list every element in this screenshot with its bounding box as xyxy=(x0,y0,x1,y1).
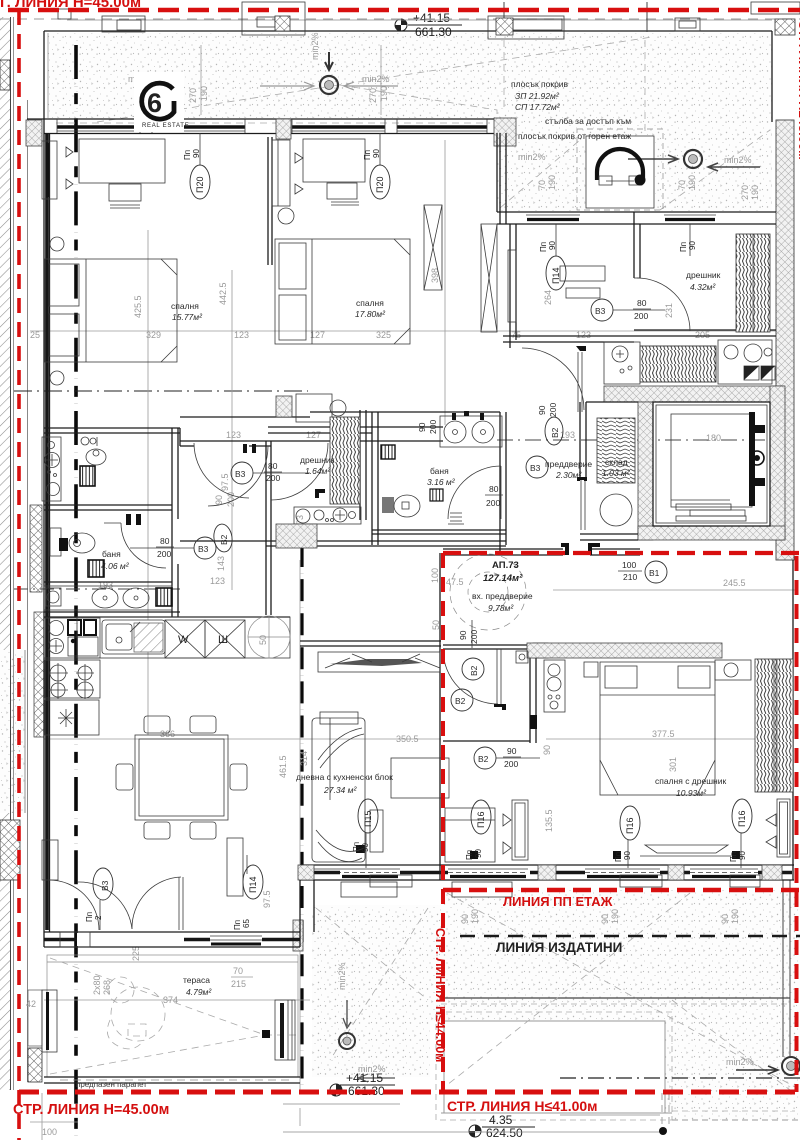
svg-text:СТР. ЛИНИЯ Н≤45.00м: СТР. ЛИНИЯ Н≤45.00м xyxy=(796,20,800,160)
bedroom2 desk xyxy=(303,139,365,182)
B3 circle bath door xyxy=(194,537,216,559)
bath vanity wall xyxy=(44,581,172,583)
arrow far right xyxy=(708,163,760,171)
elevator shaft bottom band xyxy=(638,526,785,540)
crosshatch pier bath level xyxy=(30,505,42,592)
entry wall under red line xyxy=(443,548,563,550)
bottom mid-left roof stipple xyxy=(312,905,444,1077)
svg-text:10.93м²: 10.93м² xyxy=(676,788,707,798)
svg-text:Пп: Пп xyxy=(729,852,738,862)
slope diagonals bottom right xyxy=(447,893,795,1087)
upper-right room shelves xyxy=(560,266,605,281)
svg-text:СТР. ЛИНИЯ Н≤41.00м: СТР. ЛИНИЯ Н≤41.00м xyxy=(447,1098,598,1114)
black node Pp90 xyxy=(356,845,365,853)
bath2 vanity xyxy=(440,416,502,447)
bath1 mid wall xyxy=(44,504,172,506)
bath2 door arc xyxy=(448,466,501,519)
terrace slope dashes xyxy=(50,958,298,1074)
svg-text:2.30м²: 2.30м² xyxy=(555,470,582,480)
dreshnik 4.32 wardrobe xyxy=(736,234,770,332)
svg-text:80: 80 xyxy=(637,298,647,308)
window tag P20 right xyxy=(370,165,390,199)
svg-text:ЛИНИЯ ИЗДАТИНИ: ЛИНИЯ ИЗДАТИНИ xyxy=(496,940,622,955)
top right corner box xyxy=(751,2,800,14)
svg-text:97.5: 97.5 xyxy=(220,473,230,491)
apt2 wall x530 xyxy=(529,645,531,743)
svg-text:преддверие: преддверие xyxy=(545,459,592,469)
kitchen sink unit xyxy=(102,620,165,654)
washer W xyxy=(165,620,205,658)
level symbol top xyxy=(395,19,407,31)
wall between bedrooms x268 xyxy=(267,137,269,265)
svg-text:min2%: min2% xyxy=(310,32,320,60)
svg-text:100: 100 xyxy=(430,568,440,583)
svg-text:+41.15: +41.15 xyxy=(413,11,450,25)
svg-text:90: 90 xyxy=(458,630,468,640)
svg-text:200: 200 xyxy=(634,311,648,321)
bath1 divider xyxy=(96,437,98,446)
radiator column right bedroom3 xyxy=(777,799,790,857)
left wall lower fixtures xyxy=(42,840,58,880)
svg-text:27.34 м²: 27.34 м² xyxy=(323,785,357,795)
drain bottom right xyxy=(782,1057,800,1075)
corridor small door arc x268 xyxy=(208,446,268,506)
chair left xyxy=(116,764,133,790)
right outer wall lower xyxy=(792,560,794,880)
bedroom1 bottom wall xyxy=(44,427,180,429)
svg-text:200: 200 xyxy=(486,498,500,508)
roof right edge xyxy=(771,31,773,122)
svg-text:190: 190 xyxy=(547,175,557,190)
svg-text:190: 190 xyxy=(687,175,697,190)
svg-text:АП.73: АП.73 xyxy=(492,560,519,571)
bath2 walls xyxy=(371,412,373,545)
dreshnik bottom wall xyxy=(634,329,776,331)
svg-text:2x80: 2x80 xyxy=(92,975,102,995)
svg-text:Пп: Пп xyxy=(465,850,474,860)
svg-text:В2: В2 xyxy=(478,754,489,764)
svg-text:80: 80 xyxy=(160,536,170,546)
svg-text:min2%: min2% xyxy=(726,1057,754,1067)
svg-text:50: 50 xyxy=(258,635,268,645)
svg-text:270: 270 xyxy=(368,88,378,103)
bedroom2 right wall x500 xyxy=(499,133,501,224)
svg-text:П16: П16 xyxy=(625,818,635,834)
svg-text:предпазен парапет: предпазен парапет xyxy=(76,1080,147,1089)
svg-text:42: 42 xyxy=(26,999,36,1009)
svg-text:склад: склад xyxy=(605,457,628,467)
svg-text:123: 123 xyxy=(210,576,225,586)
svg-text:100: 100 xyxy=(42,1127,57,1137)
logo G6 xyxy=(134,72,189,132)
svg-text:3.16 м²: 3.16 м² xyxy=(427,477,456,487)
svg-text:65: 65 xyxy=(242,919,251,928)
terrace door opening xyxy=(77,933,184,946)
svg-text:Пп: Пп xyxy=(614,852,623,862)
B3 circle corridor top xyxy=(231,462,253,484)
lower roof white pool outline xyxy=(444,1021,665,1113)
svg-text:спалня с дрешник: спалня с дрешник xyxy=(655,776,726,786)
svg-text:190: 190 xyxy=(199,86,209,101)
svg-text:180: 180 xyxy=(706,433,721,443)
grid ticks top xyxy=(503,2,505,32)
svg-text:П14: П14 xyxy=(248,877,258,893)
neighbour hatch strip xyxy=(0,17,10,650)
bedroom1 desk xyxy=(79,139,165,183)
svg-text:П16: П16 xyxy=(737,811,747,827)
svg-text:REAL ESTATE: REAL ESTATE xyxy=(142,123,189,129)
svg-text:min2%: min2% xyxy=(518,152,546,162)
closet right wall x360 xyxy=(359,410,361,520)
svg-text:9.78м²: 9.78м² xyxy=(488,603,514,613)
svg-text:210: 210 xyxy=(623,572,637,582)
svg-text:123: 123 xyxy=(226,430,241,440)
window tag P14 upper right xyxy=(546,256,566,290)
upper-right top wall y212 xyxy=(497,211,776,213)
bottom wall small boxes mid xyxy=(370,875,412,887)
svg-text:П20: П20 xyxy=(195,177,205,193)
svg-text:190: 190 xyxy=(610,909,620,924)
svg-text:1.64м²: 1.64м² xyxy=(305,466,331,476)
dining table xyxy=(135,735,228,820)
sklad door leaf xyxy=(580,480,582,530)
svg-text:624.50: 624.50 xyxy=(486,1126,523,1140)
svg-text:П16: П16 xyxy=(476,812,486,828)
neighbour boundary double line xyxy=(10,17,12,1090)
upper right room bottom wall xyxy=(503,335,640,337)
washer Sh xyxy=(205,620,245,658)
B3 ellipse terrace door xyxy=(93,868,113,900)
svg-text:В2: В2 xyxy=(455,696,466,706)
svg-text:200: 200 xyxy=(428,420,438,434)
red building line mid vertical x443 xyxy=(441,553,445,1092)
svg-text:270: 270 xyxy=(188,88,198,103)
arrow down to drain xyxy=(343,1000,351,1028)
svg-text:377.5: 377.5 xyxy=(652,729,675,739)
svg-text:плосък покрив: плосък покрив xyxy=(511,79,569,89)
roof top edge xyxy=(44,30,772,32)
svg-text:1.03 м²: 1.03 м² xyxy=(602,468,631,478)
corridor door arc B3 xyxy=(522,348,584,410)
svg-text:100: 100 xyxy=(622,560,636,570)
apt2 kitchen pier xyxy=(533,643,548,658)
dreshnik door arc xyxy=(637,278,690,331)
kitchen left cabinets xyxy=(44,618,100,658)
min2% arrow right xyxy=(344,82,398,90)
svg-text:90: 90 xyxy=(542,745,552,755)
svg-text:25: 25 xyxy=(30,330,40,340)
left wall opening arrows xyxy=(66,147,73,189)
svg-text:тераса: тераса xyxy=(183,975,210,985)
kitchen right: sink cabinet xyxy=(604,342,640,384)
svg-text:264: 264 xyxy=(543,290,553,305)
P14 tag mid bottom xyxy=(493,816,495,818)
drain arrow down xyxy=(325,52,333,70)
bath2 washing machine xyxy=(88,560,104,577)
bath bottom wall xyxy=(372,529,506,531)
kitchen top counter xyxy=(77,617,290,658)
elevator shaft left band xyxy=(638,402,653,540)
axis dash-dot bottom y1078 xyxy=(560,1077,800,1079)
bedroom2 window arrows xyxy=(295,153,303,194)
roof edge dashed offsets xyxy=(441,1003,790,1005)
kitchenette below closet xyxy=(294,507,361,524)
B3 circle dreshnik door xyxy=(591,299,613,321)
svg-text:47.5: 47.5 xyxy=(446,577,464,587)
spiral stair handrail xyxy=(597,149,643,172)
svg-text:В1: В1 xyxy=(649,568,660,578)
svg-text:314: 314 xyxy=(299,751,309,766)
svg-text:135.5: 135.5 xyxy=(544,809,554,832)
red building line left vertical xyxy=(17,10,21,1140)
svg-text:245.5: 245.5 xyxy=(723,578,746,588)
bedroom1 double bed xyxy=(45,259,177,362)
chimney assembly mid xyxy=(488,16,564,39)
top right pier xyxy=(775,19,795,35)
apartment2 entry wall y645 xyxy=(443,644,533,646)
window tag P16 mid xyxy=(620,806,640,840)
arrow to right drain xyxy=(628,155,678,163)
svg-text:205: 205 xyxy=(695,330,710,340)
right outer wall upper crosshatch xyxy=(776,120,794,560)
window tag P16 right xyxy=(732,799,752,833)
svg-text:70: 70 xyxy=(677,180,687,190)
bath2 toilet xyxy=(382,497,394,513)
terrace left window xyxy=(42,990,57,1052)
svg-text:200: 200 xyxy=(504,759,518,769)
svg-text:80: 80 xyxy=(489,484,499,494)
round table 50 xyxy=(248,616,290,658)
red building line bottom y1092 xyxy=(19,1090,800,1095)
dim line y739 living xyxy=(44,738,441,740)
top wall pier right xyxy=(494,118,516,146)
window tag P16 apt2 xyxy=(471,800,491,834)
bedroom1 wardrobe column xyxy=(272,140,290,206)
svg-text:461.5: 461.5 xyxy=(278,755,288,778)
block bottom wall y541 xyxy=(180,540,506,542)
apt2 radiator column xyxy=(512,800,528,860)
bedroom2 dresser xyxy=(296,394,332,422)
bath1 plumbing stack xyxy=(42,437,61,501)
kitchen right: dish rack xyxy=(640,346,716,382)
dim vertical extension lines xyxy=(147,230,149,620)
red line PP floor y890 xyxy=(443,888,800,892)
svg-text:min2%: min2% xyxy=(362,74,390,84)
apt2 entry dashed circle xyxy=(450,554,526,630)
grey dashed setback line top xyxy=(0,18,800,20)
bottom wall piers xyxy=(298,865,314,880)
svg-text:Пп: Пп xyxy=(85,912,94,922)
svg-text:325: 325 xyxy=(376,330,391,340)
svg-text:СТР. ЛИНИЯ Н=45.00м: СТР. ЛИНИЯ Н=45.00м xyxy=(13,1102,169,1118)
drain bottom left patch xyxy=(339,1033,355,1049)
svg-text:190: 190 xyxy=(730,909,740,924)
elevator counterweight xyxy=(749,412,755,506)
B2 circle living door xyxy=(451,689,473,711)
bedroom1 side table top xyxy=(50,237,64,251)
svg-text:80: 80 xyxy=(268,461,278,471)
svg-text:дневна с кухненски блок: дневна с кухненски блок xyxy=(296,772,393,782)
svg-text:В2: В2 xyxy=(469,665,479,676)
bath2 vent box xyxy=(430,489,443,501)
small rects bottom left wall xyxy=(60,932,90,947)
B2 rotated label door lower xyxy=(545,417,563,445)
apt2 wall y741 xyxy=(443,740,530,742)
svg-text:ЛИНИЯ ПП ЕТАЖ: ЛИНИЯ ПП ЕТАЖ xyxy=(503,894,613,909)
svg-text:4.79м²: 4.79м² xyxy=(186,987,212,997)
corridor top wall mid xyxy=(180,440,443,442)
window tag P14 terrace xyxy=(243,865,263,899)
svg-text:366: 366 xyxy=(160,729,175,739)
apt2 door arc xyxy=(443,649,498,704)
svg-text:Пп: Пп xyxy=(183,150,192,160)
red building line right vertical x796 xyxy=(795,556,799,1092)
bath2 washing machine xyxy=(381,445,395,459)
svg-text:442.5: 442.5 xyxy=(218,282,228,305)
crosshatch pier kitchen level xyxy=(34,612,44,737)
svg-text:70: 70 xyxy=(233,966,243,976)
living top wall right xyxy=(300,640,441,642)
svg-text:127.14м²: 127.14м² xyxy=(483,573,523,584)
svg-text:90: 90 xyxy=(507,746,517,756)
bottom wall right part xyxy=(300,864,794,866)
crosshatch pier left low xyxy=(28,1048,42,1082)
svg-text:ЗП 21.92м²: ЗП 21.92м² xyxy=(515,91,560,101)
svg-text:301: 301 xyxy=(668,757,678,772)
bath2 door arc xyxy=(121,523,166,568)
dim line y1000 terrace xyxy=(44,999,310,1001)
bottom dim bracket xyxy=(283,1103,400,1105)
svg-text:СТР. ЛИНИЯ Н≤44.00м: СТР. ЛИНИЯ Н≤44.00м xyxy=(433,928,447,1062)
bedroom3 wardrobe xyxy=(755,659,793,792)
svg-text:15.77м²: 15.77м² xyxy=(172,312,203,322)
roof edge line y998 xyxy=(441,997,790,999)
bottom right big roof stipple xyxy=(441,890,800,1120)
svg-text:В2: В2 xyxy=(219,534,229,545)
svg-text:4.32м²: 4.32м² xyxy=(690,282,716,292)
chair right xyxy=(230,764,247,790)
B1 circle xyxy=(645,561,667,583)
svg-text:min2%: min2% xyxy=(337,962,347,990)
slope diagonals bottom left patch xyxy=(316,908,428,1000)
closet wall x266 xyxy=(265,441,267,615)
bedroom1 side table bottom xyxy=(50,371,64,385)
bedroom3 top band xyxy=(527,643,722,658)
svg-text:17.80м²: 17.80м² xyxy=(355,309,386,319)
svg-text:4.35: 4.35 xyxy=(489,1113,513,1127)
bedroom2 tall cupboard xyxy=(424,205,442,290)
B2 circle apt2 entry xyxy=(462,658,484,680)
svg-text:баня: баня xyxy=(102,549,121,559)
left wall window bedroom1 xyxy=(42,141,57,199)
corridor door arc closet xyxy=(194,443,249,498)
axis dash-dot y589 left xyxy=(14,588,180,590)
svg-text:П14: П14 xyxy=(551,268,561,284)
chairs top xyxy=(144,716,170,733)
svg-text:231: 231 xyxy=(664,303,674,318)
crosshatch pier left mid xyxy=(0,820,20,880)
window radiators bottom wall xyxy=(370,810,383,852)
red building line mid horizontal y553 xyxy=(443,551,800,555)
svg-text:2: 2 xyxy=(94,915,103,920)
svg-text:70: 70 xyxy=(537,180,547,190)
svg-text:215: 215 xyxy=(231,979,246,989)
svg-text:стълба за достъп към: стълба за достъп към xyxy=(545,116,631,126)
svg-text:90: 90 xyxy=(600,914,610,924)
axis dash-dot horizontal y391 xyxy=(14,390,308,392)
svg-text:200: 200 xyxy=(266,473,280,483)
svg-text:190: 190 xyxy=(379,86,389,101)
corner pier kitchenette xyxy=(276,524,317,548)
svg-text:+41.15: +41.15 xyxy=(346,1071,383,1085)
sklad boiler xyxy=(600,494,632,526)
svg-text:дрешник: дрешник xyxy=(300,455,335,465)
corridor left wall x510 upper xyxy=(509,224,511,348)
kitchen top wall xyxy=(44,611,180,613)
svg-text:6: 6 xyxy=(147,88,162,118)
bedroom2 bed xyxy=(275,239,410,344)
vent box right xyxy=(675,18,700,31)
corridor niche wall y417-428 xyxy=(179,428,181,446)
red building line top xyxy=(8,8,800,13)
svg-text:661.30: 661.30 xyxy=(415,25,452,39)
bath corridor wall x172 xyxy=(171,428,173,617)
svg-text:спалня: спалня xyxy=(356,298,384,308)
left outer wall xyxy=(43,119,45,947)
french door arcs xyxy=(78,882,132,929)
corridor x510 lower xyxy=(499,412,501,553)
bedroom3 bed xyxy=(600,662,715,795)
svg-text:123: 123 xyxy=(234,330,249,340)
svg-text:Пп: Пп xyxy=(363,150,372,160)
svg-text:Пп: Пп xyxy=(679,242,688,252)
svg-text:П20: П20 xyxy=(375,177,385,193)
top flat roof stipple band xyxy=(48,33,772,212)
sklad shelves xyxy=(597,418,635,483)
section line A-A vertical xyxy=(74,45,78,1140)
axis dash-dot horizontal y440 right xyxy=(497,439,795,441)
svg-text:398: 398 xyxy=(430,268,440,283)
svg-text:Ш: Ш xyxy=(218,634,228,646)
svg-text:127: 127 xyxy=(306,430,321,440)
svg-text:270: 270 xyxy=(740,185,750,200)
svg-text:90: 90 xyxy=(361,843,370,852)
elevator doors xyxy=(671,499,730,501)
section line B vertical right of living xyxy=(300,545,303,1090)
svg-text:min2%: min2% xyxy=(724,155,752,165)
vanity row xyxy=(44,586,172,610)
kitchen right: stove unit xyxy=(718,340,772,384)
svg-text:200: 200 xyxy=(548,403,558,417)
min2% arrow left xyxy=(260,82,314,90)
svg-text:В3: В3 xyxy=(530,463,541,473)
TV bench xyxy=(318,652,440,672)
bedroom3 side tables xyxy=(584,662,598,677)
svg-text:90: 90 xyxy=(474,849,483,858)
roof drain right xyxy=(684,150,702,168)
svg-text:Г. ЛИНИЯ Н=45.00м: Г. ЛИНИЯ Н=45.00м xyxy=(0,0,141,11)
svg-text:190: 190 xyxy=(750,185,760,200)
svg-text:Пп: Пп xyxy=(539,242,548,252)
bath1 sink xyxy=(86,449,106,465)
chairs bottom xyxy=(144,822,170,839)
svg-text:дрешник: дрешник xyxy=(686,270,721,280)
svg-text:90: 90 xyxy=(214,495,224,505)
stair well walls xyxy=(496,133,498,212)
dreshnik left wall x637 xyxy=(633,212,635,278)
svg-text:143: 143 xyxy=(216,556,226,571)
svg-text:4.06 м²: 4.06 м² xyxy=(101,561,130,571)
